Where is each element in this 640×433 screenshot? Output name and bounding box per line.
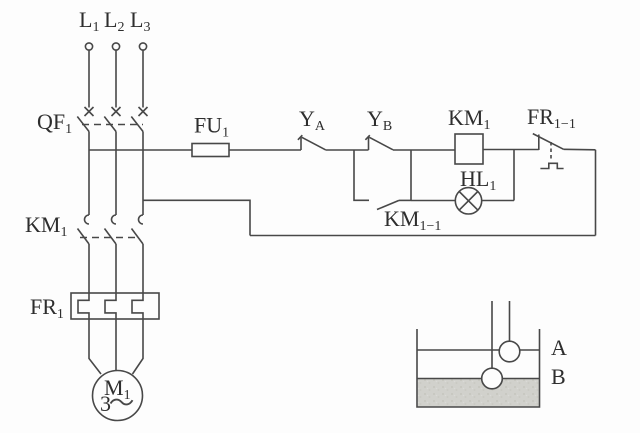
label L2: [104, 7, 124, 35]
svg-text:YA: YA: [299, 106, 326, 134]
label KM1-1: [384, 206, 441, 234]
wire YA to YB: [326, 149, 369, 151]
wire pole3 mid: [142, 132, 144, 216]
svg-text:QF1: QF1: [37, 109, 72, 137]
wire coil to FR1-1: [483, 149, 539, 151]
float ball A: [499, 341, 520, 362]
label FR1-1: [527, 104, 576, 132]
float rod 1: [491, 301, 493, 369]
label KM1: [25, 212, 67, 240]
tank level A line: [417, 349, 540, 351]
label B: [551, 364, 566, 389]
tank water B level line: [417, 378, 540, 380]
aux contact KM1-1: [377, 200, 399, 209]
FR1-1 thermal element: [540, 163, 563, 168]
wire right drop: [595, 150, 597, 236]
breaker QF1 pole 2: [104, 107, 120, 132]
wire return step: [143, 200, 250, 235]
float switch YB: [365, 135, 393, 150]
label A: [551, 335, 567, 360]
label FR1: [30, 294, 64, 322]
wire YB to coil: [393, 149, 455, 151]
wire fuse to YA: [229, 149, 301, 151]
terminal L3: [139, 43, 146, 50]
thermal relay FR1 box: [71, 293, 159, 319]
svg-text:FR1: FR1: [30, 294, 64, 322]
svg-text:A: A: [551, 335, 567, 360]
svg-text:HL1: HL1: [460, 166, 496, 194]
wire pole1 low: [88, 244, 90, 293]
thermal contact FR1-1: [533, 134, 564, 150]
wire pole1 mid: [88, 132, 90, 216]
wire control return bottom: [250, 235, 596, 237]
wire pole3 low: [142, 244, 144, 293]
label FU1: [194, 113, 229, 141]
wire phase L2 drop: [115, 50, 117, 107]
motor M1: [93, 371, 143, 421]
tank walls: [417, 329, 540, 407]
svg-text:3: 3: [100, 391, 111, 416]
heater FR1 element 2: [105, 293, 116, 319]
contactor KM1 linkage: [80, 237, 140, 239]
label L3: [130, 7, 150, 35]
motor wave symbol: [111, 400, 133, 405]
wire lamp left: [411, 200, 455, 202]
wire pole2 low: [115, 244, 117, 293]
wire hold branch right: [399, 199, 411, 201]
breaker QF1 linkage: [82, 124, 143, 126]
label HL1: [460, 166, 496, 194]
label QF1: [37, 109, 72, 137]
wire phase L3 drop: [142, 50, 144, 107]
wire pole2 mid: [115, 132, 117, 216]
float ball B: [482, 368, 503, 389]
float switch YA: [298, 135, 326, 150]
svg-text:B: B: [551, 364, 566, 389]
svg-text:KM1−1: KM1−1: [384, 206, 441, 234]
fuse FU1: [192, 144, 229, 157]
contactor KM1 pole 2: [105, 215, 117, 244]
wire hold branch left: [354, 150, 369, 200]
svg-text:FU1: FU1: [194, 113, 229, 141]
label coil KM1: [448, 105, 490, 133]
coil KM1: [455, 134, 483, 164]
tank shade (water): [418, 379, 539, 407]
svg-text:YB: YB: [367, 106, 392, 134]
svg-text:L3: L3: [130, 7, 150, 35]
wire phase L1 drop: [88, 50, 90, 107]
terminal L1: [85, 43, 92, 50]
wire control feed: [89, 149, 192, 151]
svg-text:L1: L1: [79, 7, 99, 35]
wire motor lead 3: [133, 319, 144, 374]
label YA: [299, 106, 326, 134]
label M1 3~: [100, 375, 131, 416]
contactor KM1 pole 1: [78, 215, 90, 244]
wire motor lead 1: [89, 319, 101, 374]
svg-text:KM1: KM1: [25, 212, 67, 240]
node lamp right: [513, 150, 515, 201]
FR1-1 actuator dashes: [550, 142, 552, 161]
wire motor lead 2: [115, 319, 117, 371]
heater FR1 element 1: [78, 293, 89, 319]
contactor KM1 pole 3: [132, 215, 144, 244]
node lamp branch: [410, 150, 412, 200]
lamp HL1: [455, 188, 481, 214]
svg-text:L2: L2: [104, 7, 124, 35]
wire lamp right: [482, 200, 514, 202]
wire FR1-1 to right drop: [564, 148, 596, 151]
svg-text:FR1−1: FR1−1: [527, 104, 576, 132]
label L1: [79, 7, 99, 35]
breaker QF1 pole 1: [77, 107, 93, 132]
label YB: [367, 106, 392, 134]
breaker QF1 pole 3: [131, 107, 147, 132]
heater FR1 element 3: [132, 293, 143, 319]
terminal L2: [112, 43, 119, 50]
svg-text:KM1: KM1: [448, 105, 490, 133]
float rod 2: [509, 301, 511, 342]
